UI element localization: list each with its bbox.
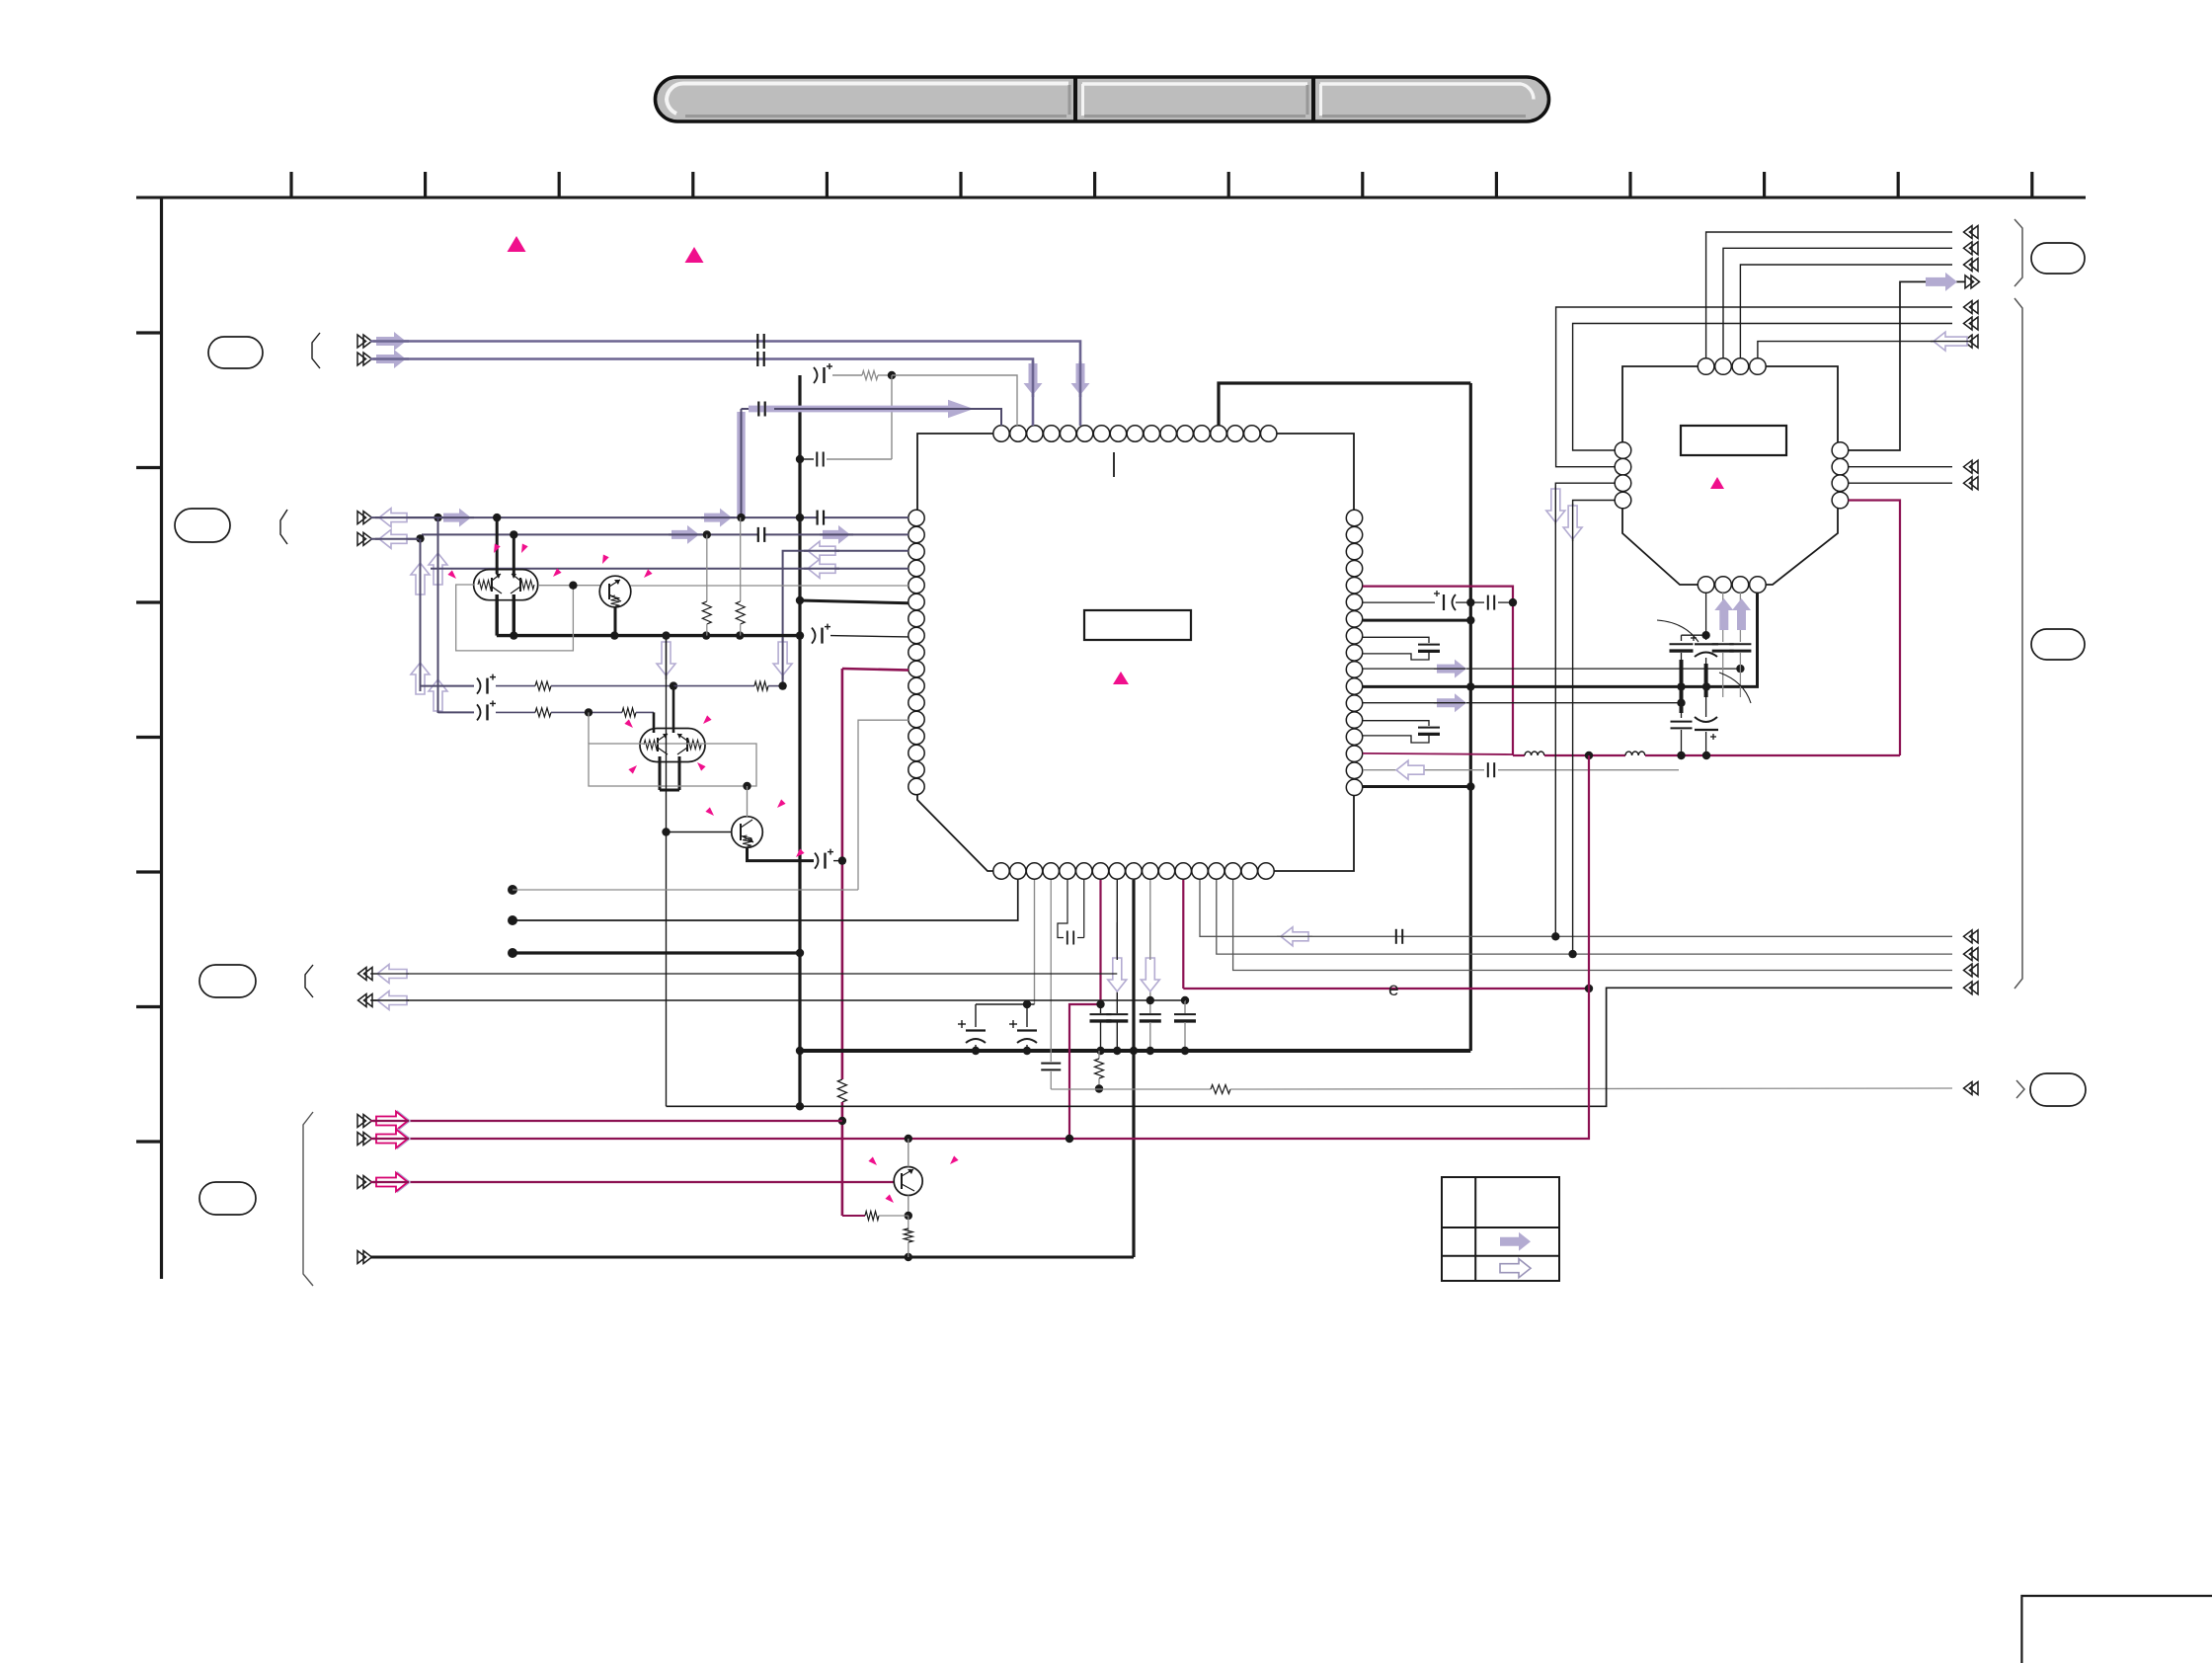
pin11R thick wire to U2 (1363, 593, 1758, 686)
transistor Q3 (732, 817, 763, 848)
ecap E2 (1026, 1004, 1028, 1027)
branch d (1739, 593, 1741, 642)
pin6R cap chain (1363, 601, 1435, 603)
ecap C721 (477, 704, 481, 720)
wire loop right V1489 (1469, 383, 1472, 1051)
transistor Q4 (894, 1167, 922, 1196)
resistor R721b (622, 708, 636, 717)
transistor Tr2 dual package (640, 729, 705, 762)
ruler ticks left (136, 331, 161, 334)
coil L2 (1625, 752, 1645, 755)
right connector chevron outgoing (1965, 276, 1980, 288)
pin10R arrow wire (1363, 668, 1740, 670)
capacitor C414 (757, 402, 759, 417)
resistor R-top (862, 371, 878, 380)
resistor R694a (535, 681, 551, 690)
arcs (1657, 620, 1698, 642)
Q3 base wire (667, 831, 732, 833)
capacitor C465 (816, 452, 818, 467)
Q3 collector (747, 786, 749, 817)
IC U2 bottom pins (1698, 577, 1714, 594)
Q2 emitter (614, 607, 617, 636)
header button bar (656, 77, 1549, 121)
pin7R thick (1363, 619, 1470, 622)
pink ticks Q4 (868, 1156, 877, 1165)
ecap C610 (1453, 594, 1457, 610)
corner frame (2021, 1596, 2212, 1663)
connector label right stadium 1 (2031, 243, 2085, 274)
resistor R-emitter (908, 1216, 909, 1232)
wire B y1013 (370, 999, 1185, 1001)
CN2 pin chevron 1 (357, 512, 372, 524)
maroon bus y765 (1513, 754, 1525, 756)
Q1 collector leads (496, 517, 499, 574)
maroon to emitter res (842, 1215, 865, 1217)
resistor R694b (754, 681, 768, 690)
U2 right1 out (1849, 281, 1965, 450)
vertical from dot596 (588, 712, 590, 744)
below-bus cap branch from pin4 (1050, 880, 1052, 1062)
capacitor C541 (757, 527, 759, 542)
IC U2 body (1622, 366, 1838, 585)
right bracket 2 (2014, 298, 2022, 989)
feedback box Tr2 (589, 744, 756, 786)
right small bracket bottom (2016, 1080, 2024, 1098)
wire CN1-2 purple (370, 359, 1033, 427)
IC U1 body (917, 434, 1354, 871)
junctions W2 (416, 534, 424, 542)
node row 1 (508, 885, 517, 895)
CN4 pin chevron 4 (357, 1251, 372, 1264)
header divider 2 (1311, 77, 1315, 121)
capacitor C-b on CN1-2 (756, 352, 758, 366)
transistor Q2 (599, 576, 631, 607)
wire pin6 (800, 600, 908, 603)
U2 top4 (1758, 342, 1952, 358)
pink ticks Tr2 (624, 719, 633, 728)
hollow left arrows pin3/4 rows (808, 541, 835, 560)
wire V810 (798, 375, 801, 1106)
wire W1 (pin1 row) (370, 516, 818, 518)
header segment bevels (667, 83, 1068, 114)
pin15R maroon (1363, 753, 1513, 754)
step wires to right chevrons (1200, 880, 1952, 936)
IC U1 top pins (993, 426, 1009, 441)
U2 left3 down (1555, 483, 1615, 936)
CN3 brace (305, 965, 313, 997)
wire pin3 row (783, 551, 908, 686)
warning triangle 2 (685, 247, 704, 263)
Q3 emitter (748, 847, 815, 861)
wire gray to pin2 top (892, 375, 1017, 426)
wire CN2-3 purple to pin1 top (742, 408, 755, 410)
cap branch p10 (1149, 880, 1151, 1013)
hollow down arrows on V674/V792 (657, 642, 675, 675)
cap branch 4 (1181, 996, 1189, 1004)
U2 left2 (1556, 307, 1952, 467)
p9 thick descent (1132, 880, 1135, 1257)
Tr2 emitters (659, 756, 662, 790)
page border ruler top (136, 197, 2086, 199)
pin12R wire (1363, 702, 1682, 704)
resistor R721a (535, 708, 551, 717)
junction (796, 455, 804, 463)
maroon riser to U2 (1849, 501, 1900, 756)
legend arrow filled (1500, 1232, 1531, 1251)
maroon to pin10 (842, 669, 908, 671)
IC U1 left pins (908, 510, 924, 525)
black L wire 1120/1000 (667, 988, 1953, 1106)
CN4 pin chevron 3 (357, 1176, 372, 1189)
maroon wire y1001 (1183, 988, 1589, 990)
legend arrow hollow (1500, 1259, 1531, 1278)
hollow left arrows CN3 (377, 965, 407, 984)
V674 long (666, 636, 668, 1107)
down arrow to pin3 (1024, 363, 1043, 395)
Q4 emitter chain (908, 1196, 909, 1217)
CN1 pin chevron 1 (357, 335, 372, 348)
U2 left4 down (1573, 501, 1616, 955)
junction dot base (662, 631, 670, 639)
ecap C810 top (814, 367, 818, 383)
CN2 pin chevron 2 (357, 532, 372, 545)
branch a (1682, 634, 1706, 636)
wire M1 y1135 (370, 1120, 842, 1122)
connector label right stadium 2 (2031, 629, 2085, 660)
pin16R wire (1363, 769, 1484, 771)
wire pin4 row (431, 568, 908, 570)
vertical link 903 (891, 375, 893, 459)
pin8/9R bracket cap (1363, 637, 1429, 643)
maroon pin5R to bus (1363, 587, 1513, 755)
capacitor C-a on CN1-1 (756, 334, 758, 349)
wire CN4-4 bottom (370, 1256, 1134, 1259)
svg-text:e: e (1388, 980, 1399, 1000)
U2 right2 (1849, 466, 1952, 468)
IC U1 warning triangle (1113, 672, 1129, 684)
connector label right stadium 3 (2030, 1073, 2086, 1106)
riser 750 (741, 409, 743, 517)
emitter bus (497, 634, 800, 637)
wire M3 y1197 (370, 1181, 895, 1183)
wire CN1-1 purple (370, 342, 1080, 427)
ecap C643 (812, 628, 816, 644)
IC U1 right pins (1346, 510, 1362, 525)
CN4 pin chevron 1 (357, 1115, 372, 1128)
arrow on C414 wire (737, 412, 745, 516)
right bracket 1 (2014, 219, 2022, 286)
wire A y986 (370, 973, 1117, 975)
pink ticks Q2 (644, 569, 653, 578)
coil L1 (1525, 752, 1544, 755)
CN4 pin chevron 2 (357, 1133, 372, 1146)
connector label CN4 stadium (199, 1182, 256, 1215)
IC U2 top pins (1698, 358, 1714, 375)
hollow left arrows CN2 (379, 509, 407, 527)
CN1 pin chevron 2 (357, 353, 372, 365)
CN3 pin chevron 2 (358, 994, 373, 1007)
capacitor C524 (816, 511, 818, 525)
connector label CN2 stadium (175, 509, 230, 542)
IC U2 right pins (1832, 442, 1849, 459)
header divider 1 (1073, 77, 1077, 121)
connector label CN3 stadium (199, 965, 256, 997)
Tr2 collector risers (653, 712, 656, 733)
resistor R852 (837, 1079, 846, 1102)
arrow on CN1-2 (376, 350, 406, 368)
wire long 1103 (1051, 1088, 1211, 1090)
CN1 brace (312, 333, 320, 368)
CN2 brace (280, 510, 287, 544)
pin13/14R bracket cap (1363, 721, 1429, 726)
IC U1 pin mark (1113, 452, 1115, 477)
vertical R749 (740, 517, 742, 601)
IC U2 warning triangle (1710, 477, 1724, 489)
junctions W1 (434, 514, 441, 521)
legend table (1442, 1177, 1559, 1281)
resistor below bus (1098, 1051, 1100, 1059)
pink ticks Q3 (705, 807, 714, 816)
down arrow to pin6 (1071, 363, 1090, 395)
cap + arrow on 948 wire (1395, 929, 1397, 944)
small cap circuit p5-p6 (1058, 880, 1067, 938)
branch b (ecap) (1705, 593, 1707, 635)
wire row 694 (421, 685, 475, 687)
cap branch maroon node (1100, 1004, 1102, 1013)
connector label CN1 stadium (208, 337, 263, 368)
node row 3 (508, 948, 517, 958)
wire restrokes (373, 340, 409, 343)
Q1 internals (478, 581, 492, 590)
Q2 collector wire to pin5 (631, 585, 909, 587)
U2 top3 (1740, 265, 1952, 358)
transistor Q1 dual package (474, 570, 538, 600)
up arrows (1714, 598, 1733, 630)
hollow down arrows under IC (1108, 958, 1127, 991)
U2 right3 (1849, 482, 1952, 484)
page border ruler left (160, 197, 163, 1280)
wire W2 (pin2 row) (370, 538, 423, 540)
wire row 721 (438, 711, 475, 713)
ecap C871 (815, 853, 819, 869)
vertical R715 (706, 534, 708, 601)
cap branch p8 (1116, 880, 1118, 1013)
IC U1 label box (1084, 610, 1191, 640)
gray riser x869 (858, 720, 908, 890)
maroon V1609 (1588, 755, 1590, 989)
arrow on CN1-1 (376, 332, 406, 351)
IC U1 bottom pins (993, 863, 1009, 879)
right connector chevrons incoming (1964, 226, 1979, 239)
CN4 bracket (303, 1112, 313, 1286)
wire maroon V852 (841, 669, 844, 1079)
U2 top2 (1723, 248, 1952, 357)
U2 top1 (1706, 232, 1952, 358)
capacitor C610b (1487, 595, 1489, 610)
wire M2 y1153 (370, 989, 1589, 1139)
maroon from p7 (1069, 880, 1101, 1139)
U2 left1 (1573, 324, 1952, 451)
capacitor C779 (1487, 762, 1489, 777)
vertical V425 (420, 539, 422, 686)
node row 2 (508, 915, 517, 925)
junction (888, 371, 896, 379)
branch c (1722, 593, 1724, 642)
ecap E1 (975, 1004, 977, 1027)
wire loop top (1219, 383, 1470, 426)
Q4 collector riser (908, 1139, 909, 1167)
ruler ticks top (289, 172, 292, 198)
ground bus y1064 (800, 1049, 1470, 1053)
CN3 pin chevron 1 (358, 968, 373, 981)
Q1 base wire to Q2 (538, 585, 600, 587)
filled right arrows CN2 (443, 509, 471, 527)
hollow up arrows (429, 553, 447, 585)
Q1 emitter leads (496, 594, 499, 636)
vertical V443 (437, 517, 439, 712)
ecap C694 (477, 678, 481, 694)
feedback box Q1 (456, 585, 574, 651)
IC U2 label box (1681, 426, 1786, 455)
ecap cluster connector (1034, 880, 1036, 1004)
pin17R thick (1363, 785, 1470, 788)
IC U2 left pins (1615, 442, 1631, 459)
warning triangle 1 (508, 236, 526, 252)
pink ticks Q1 (494, 544, 501, 554)
magenta arrows CN4 (380, 1112, 410, 1131)
